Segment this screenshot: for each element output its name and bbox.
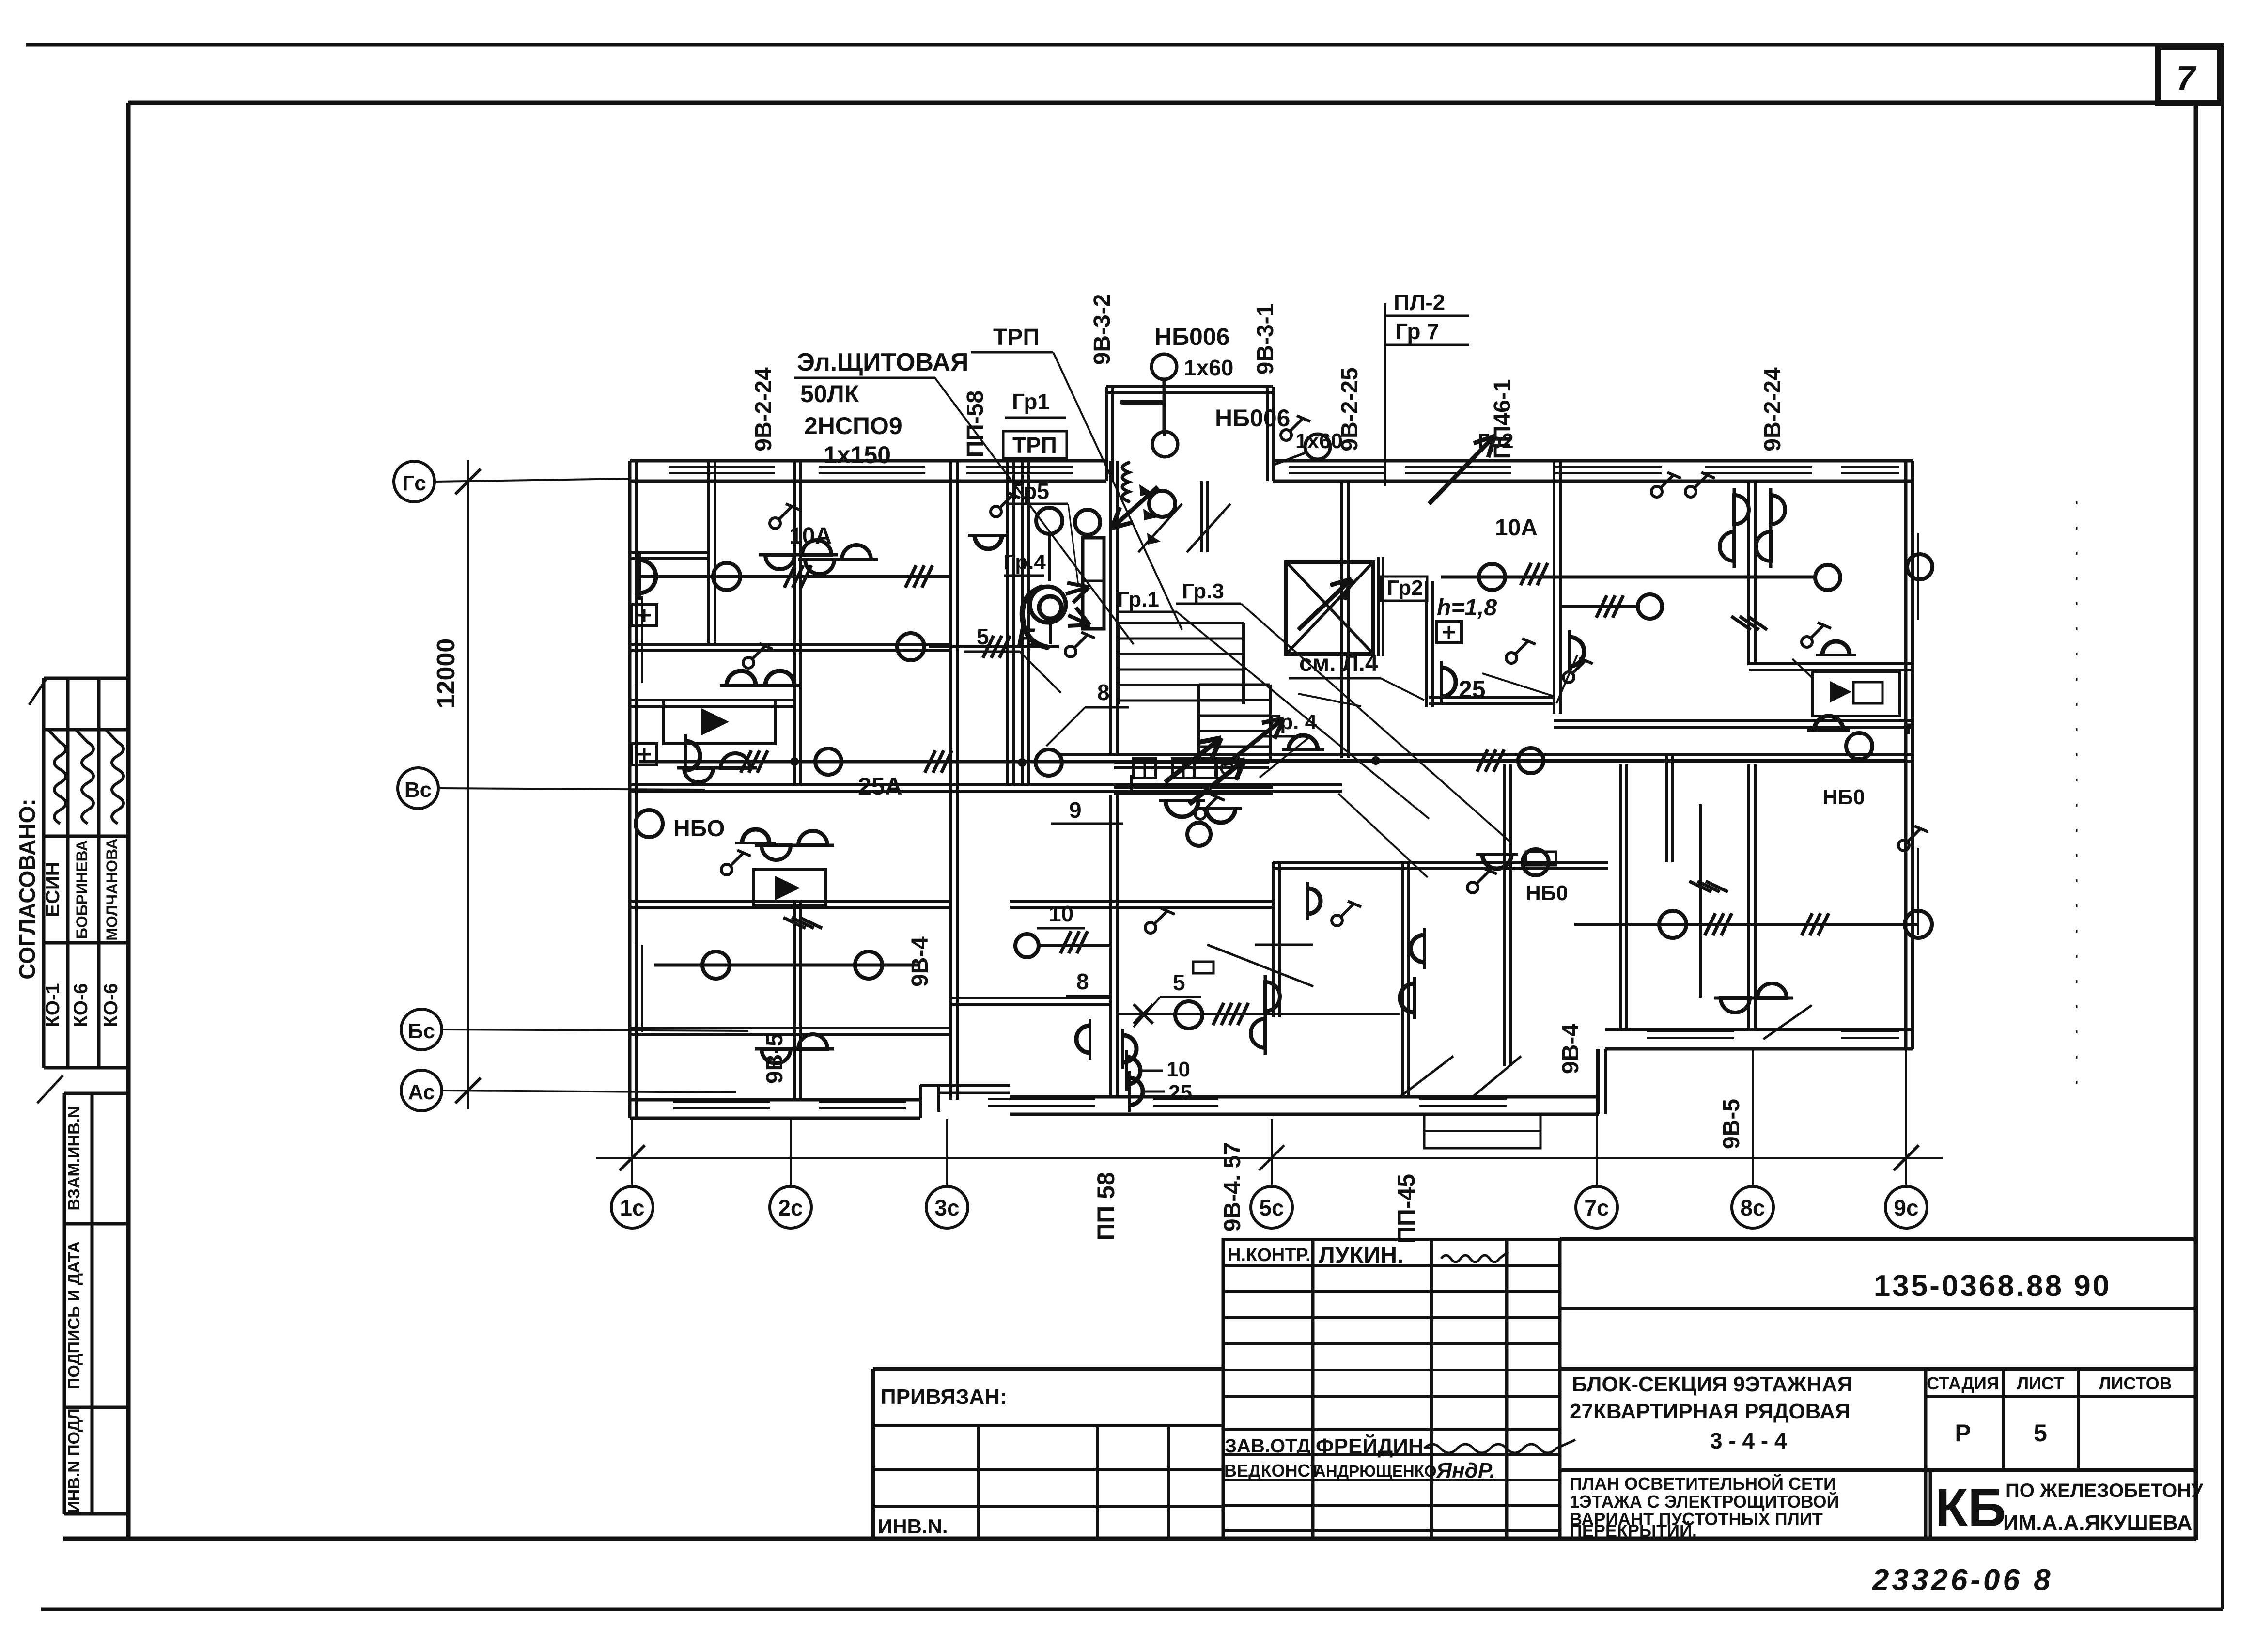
elevator shaft	[1286, 562, 1373, 654]
ceiling lamp	[1518, 748, 1543, 773]
svg-text:ТРП: ТРП	[993, 325, 1040, 350]
partition	[1665, 753, 1668, 862]
svg-text:25: 25	[1459, 676, 1486, 703]
ceiling lamp	[1846, 733, 1872, 759]
signature	[48, 730, 66, 824]
corner tick	[29, 679, 46, 705]
lower rooms wall	[630, 900, 951, 903]
horizontal dimension line	[596, 1157, 1943, 1159]
window	[1911, 533, 1913, 620]
svg-text:Гр.1: Гр.1	[1117, 588, 1159, 611]
room wall	[793, 901, 796, 1100]
wire hatch	[1477, 749, 1488, 772]
switch	[1563, 658, 1593, 683]
paired wall lamps	[798, 545, 878, 574]
kitchen wall	[1749, 662, 1913, 665]
top band bottom rule	[128, 101, 2220, 105]
feeder arrow	[1066, 587, 1089, 594]
svg-text:ЛУКИН.: ЛУКИН.	[1319, 1243, 1403, 1268]
vent shaft wall	[1006, 461, 1009, 785]
corridor wire right	[1221, 759, 1906, 762]
corridor north wall	[630, 783, 1342, 786]
leader Гр.1	[1177, 612, 1429, 819]
switch	[1467, 868, 1497, 893]
svg-text:Эл.ЩИТОВАЯ: Эл.ЩИТОВАЯ	[797, 348, 968, 376]
signature Фрейдин	[1424, 1440, 1575, 1453]
svg-text:Бс: Бс	[408, 1019, 435, 1043]
window	[1153, 1098, 1218, 1100]
svg-text:ПП-45: ПП-45	[1393, 1174, 1420, 1244]
ceiling lamp	[1015, 934, 1039, 957]
signature	[106, 730, 124, 824]
axis Ас	[401, 1070, 442, 1111]
svg-text:Вс: Вс	[404, 778, 432, 802]
wire hatch	[925, 750, 935, 773]
wall lamp НБО	[685, 734, 700, 777]
leader	[1556, 655, 1577, 703]
НБО box	[664, 700, 775, 744]
window	[819, 466, 925, 468]
sheet outer border bottom	[41, 1608, 2223, 1611]
НБО triangle	[701, 708, 729, 735]
exterior wall: left	[628, 461, 632, 1118]
НБО box	[753, 870, 826, 906]
svg-text:9В-4. 57: 9В-4. 57	[1220, 1142, 1245, 1231]
signatures (rotated squiggles)	[48, 730, 66, 824]
corridor wall	[1425, 581, 1428, 707]
wall lamp НБО	[1123, 1029, 1136, 1069]
paired wall lamps	[1720, 488, 1749, 568]
stairs	[1118, 622, 1244, 624]
feeder arrow	[1068, 615, 1090, 625]
svg-text:БЛОК-СЕКЦИЯ 9ЭТАЖНАЯ: БЛОК-СЕКЦИЯ 9ЭТАЖНАЯ	[1572, 1372, 1852, 1396]
wall lamp НБО	[1129, 1071, 1143, 1112]
ceiling lamp	[815, 748, 841, 775]
window	[1911, 848, 1913, 935]
dashed boundary line	[2076, 501, 2078, 1095]
svg-text:8: 8	[1076, 969, 1089, 994]
socket	[632, 744, 657, 765]
main switchboard outer	[1030, 587, 1066, 623]
arrow mark	[1147, 533, 1161, 545]
signature	[76, 730, 93, 824]
socket	[632, 605, 657, 626]
switch	[770, 504, 799, 529]
arrow mark	[1143, 509, 1157, 520]
leader Гр5	[1068, 504, 1078, 586]
svg-text:ФРЕЙДИН-: ФРЕЙДИН-	[1316, 1434, 1431, 1458]
svg-text:ИНВ.N ПОДЛ: ИНВ.N ПОДЛ	[65, 1408, 83, 1513]
switch	[1506, 639, 1536, 663]
bottom wall step	[919, 1085, 922, 1118]
wall lamp НБО	[1441, 661, 1456, 703]
wall lamp НБО	[1476, 854, 1518, 869]
ceiling lamp	[636, 810, 663, 837]
Бс wall	[630, 1027, 951, 1029]
inventory stamp table	[64, 1092, 128, 1095]
svg-text:ПЛ-2: ПЛ-2	[1394, 290, 1445, 315]
wall lamp НБО	[1570, 630, 1584, 673]
wall 8с upper	[1747, 482, 1750, 665]
sheet outer border right	[2221, 45, 2224, 1609]
exterior wall: bottom left	[630, 1098, 920, 1102]
svg-text:НБ006: НБ006	[1154, 323, 1229, 350]
exterior wall: right	[1904, 461, 1908, 1049]
ceiling lamp	[1659, 911, 1686, 938]
arrow mark	[1139, 484, 1153, 496]
paired wall lamps	[755, 831, 834, 860]
shelf	[1526, 852, 1556, 865]
window	[1705, 466, 1812, 468]
axis leader lines	[435, 479, 630, 482]
svg-text:Гр1: Гр1	[1012, 389, 1050, 414]
svg-text:1х60: 1х60	[1184, 355, 1233, 380]
svg-text:Гс: Гс	[402, 471, 426, 495]
window	[1289, 466, 1385, 468]
panel box	[1172, 759, 1195, 778]
svg-text:9В-5: 9В-5	[1719, 1099, 1744, 1149]
щитовая lamp	[1036, 508, 1062, 534]
svg-text:СТАДИЯ: СТАДИЯ	[1927, 1373, 1999, 1393]
panel box	[1216, 759, 1238, 778]
dim tick	[1894, 1145, 1919, 1170]
x mark	[1134, 1004, 1153, 1024]
axis 5с	[1271, 1119, 1273, 1186]
svg-text:50ЛК: 50ЛК	[800, 380, 859, 407]
ceiling lamp	[1907, 554, 1932, 579]
window	[988, 1098, 1095, 1100]
paired wall lamps	[755, 1034, 834, 1063]
exterior wall: bottom middle	[1010, 1095, 1599, 1099]
svg-text:h=1,8: h=1,8	[1437, 595, 1497, 621]
wire hatch	[1731, 616, 1751, 630]
ceiling lamp	[1036, 749, 1062, 776]
svg-text:ИМ.А.А.ЯКУШЕВА: ИМ.А.А.ЯКУШЕВА	[2003, 1511, 2192, 1535]
paired wall lamps	[1251, 975, 1280, 1055]
window	[635, 596, 637, 683]
axis 9с	[1905, 1049, 1907, 1186]
svg-text:5: 5	[1173, 970, 1185, 995]
svg-text:ЛИСТОВ: ЛИСТОВ	[2099, 1373, 2172, 1393]
svg-text:135-0368.88 90: 135-0368.88 90	[1874, 1269, 2111, 1303]
vertical dimension line	[467, 460, 469, 1109]
stair bay left wall	[1105, 387, 1108, 481]
exterior wall: bottom right	[1605, 1028, 1913, 1031]
axis 3с	[946, 1119, 948, 1186]
dim tick	[455, 1078, 481, 1103]
svg-text:9В-4: 9В-4	[907, 936, 933, 987]
stair landing edge	[1114, 762, 1269, 764]
switch	[1281, 416, 1310, 440]
svg-text:ТРП: ТРП	[1012, 433, 1057, 458]
wall lamp НБО	[1411, 928, 1424, 969]
wire	[1561, 605, 1638, 608]
title block: name box	[1560, 1367, 2196, 1371]
inner frame left	[126, 103, 131, 1540]
svg-text:5: 5	[2034, 1419, 2047, 1447]
stair bay right wall	[1266, 387, 1269, 481]
svg-text:Гр 7: Гр 7	[1395, 319, 1439, 344]
wire hatch	[905, 565, 916, 588]
svg-text:25: 25	[1168, 1081, 1192, 1105]
corridor wire	[639, 760, 1132, 764]
svg-text:9В-3-2: 9В-3-2	[1089, 294, 1115, 365]
wall lamp НБО	[1159, 800, 1205, 817]
svg-text:ВЕДКОНСТ: ВЕДКОНСТ	[1224, 1461, 1321, 1481]
ceiling lamp	[1638, 594, 1662, 619]
wall lamp НБО	[1816, 641, 1856, 655]
svg-text:10: 10	[1049, 901, 1073, 926]
svg-text:Гр.3: Гр.3	[1182, 579, 1224, 603]
axis Вс	[398, 768, 438, 809]
window	[673, 1101, 770, 1103]
wall lamp НБО	[1282, 735, 1324, 750]
switch	[1332, 901, 1361, 926]
door leaf	[1473, 1056, 1521, 1097]
door leaf	[1400, 1056, 1453, 1097]
lamp НБ006	[1305, 434, 1330, 459]
wall lamp НБО	[1400, 977, 1415, 1019]
feeder arrow	[1228, 718, 1284, 763]
svg-text:9: 9	[1069, 797, 1082, 823]
sheet outer border top	[26, 43, 2224, 47]
junction	[1371, 756, 1380, 765]
axis Бс	[401, 1009, 442, 1050]
ceiling lamp	[1815, 565, 1840, 590]
corridor south wall	[1059, 753, 1913, 756]
bath wall	[630, 699, 794, 701]
svg-text:КБ: КБ	[1935, 1478, 2006, 1538]
lower room wall	[1401, 862, 1404, 1097]
svg-text:23326-06 8: 23326-06 8	[1872, 1563, 2053, 1597]
lower partition2	[1272, 862, 1275, 1017]
svg-text:3 - 4 - 4: 3 - 4 - 4	[1710, 1428, 1787, 1453]
lower room wall	[1503, 764, 1506, 1066]
svg-text:Гр5: Гр5	[1011, 479, 1049, 504]
ceiling lamp	[897, 633, 924, 660]
switch	[743, 643, 773, 668]
ceiling lamp	[1175, 1001, 1202, 1029]
svg-text:1х150: 1х150	[824, 441, 891, 468]
svg-text:9В-3-1: 9В-3-1	[1253, 304, 1278, 375]
wire	[1699, 804, 1702, 998]
wire	[793, 908, 796, 1046]
window	[1405, 466, 1511, 468]
leader	[1482, 673, 1555, 697]
НБО box	[1813, 671, 1900, 716]
window	[635, 945, 637, 1032]
panel box	[1134, 759, 1156, 778]
wall lamp НБО	[968, 535, 1009, 549]
svg-text:9с: 9с	[1894, 1195, 1918, 1220]
svg-text:10А: 10А	[1495, 515, 1538, 541]
wall lamp НБО	[759, 671, 801, 686]
svg-text:Н.КОНТР.: Н.КОНТР.	[1228, 1245, 1311, 1265]
wire hatch	[1689, 881, 1711, 892]
socket	[1436, 622, 1462, 643]
wire hatch	[983, 636, 994, 658]
wall lamp НБО	[1127, 1050, 1140, 1091]
title block: left attachment table	[873, 1367, 1223, 1371]
feeder arc	[1022, 587, 1047, 647]
paired wall lamps	[759, 540, 838, 569]
switch	[991, 492, 1020, 517]
partition	[951, 997, 1111, 999]
wire	[1441, 576, 1816, 579]
switch	[721, 850, 751, 875]
svg-text:НБ0: НБ0	[1525, 881, 1568, 905]
щитовая right wall	[1109, 461, 1112, 755]
wall lamp НБО	[639, 553, 656, 600]
axis 1с	[631, 1119, 633, 1186]
svg-text:ЯндР.: ЯндР.	[1436, 1459, 1495, 1482]
vestibule lamp	[1149, 491, 1175, 517]
door swing	[1187, 504, 1230, 552]
feeder arrow Гр	[1112, 487, 1158, 528]
svg-text:Гр2: Гр2	[1387, 576, 1423, 600]
svg-text:ПО ЖЕЛЕЗОБЕТОНУ: ПО ЖЕЛЕЗОБЕТОНУ	[2006, 1480, 2204, 1501]
ceiling lamp	[702, 951, 730, 979]
svg-text:3с: 3с	[934, 1195, 959, 1220]
leader	[935, 378, 1134, 644]
svg-text:ВЗАМ.ИНВ.N: ВЗАМ.ИНВ.N	[65, 1106, 83, 1210]
paired wall lamps	[1714, 983, 1793, 1013]
feeder arrow Гр2	[1429, 436, 1494, 504]
wire hatch	[783, 918, 806, 928]
ceiling lamp	[1905, 911, 1932, 938]
axis 8с	[1752, 1049, 1754, 1186]
wire hatch	[784, 565, 795, 588]
wall x3210	[1553, 461, 1555, 714]
paired wall lamps	[1756, 488, 1785, 568]
svg-text:НБО: НБО	[673, 816, 725, 842]
switch	[1145, 908, 1175, 933]
bay feeder	[1122, 400, 1163, 405]
shaft feeder arrow	[1298, 579, 1352, 630]
wall lamp НБО	[735, 829, 776, 843]
hall wall	[1114, 786, 1273, 789]
wall lamp НБО	[1199, 808, 1242, 823]
vestibule wall	[1200, 481, 1203, 552]
title block: middle signature table	[1223, 1238, 1560, 1241]
НБО triangle	[775, 876, 800, 900]
lamp at bay	[1075, 510, 1100, 535]
lamp stem	[1048, 534, 1051, 581]
panel box	[1194, 759, 1216, 778]
main switchboard inner	[1039, 596, 1061, 619]
svg-text:КО-6: КО-6	[100, 983, 122, 1027]
wire hatch	[741, 750, 751, 773]
dim tick	[620, 1145, 645, 1170]
paired wall lamps	[677, 753, 757, 782]
bath wall	[630, 551, 709, 554]
stairwell left wall	[1340, 481, 1343, 758]
svg-text:Ас: Ас	[408, 1080, 435, 1104]
НБО inner	[1853, 682, 1882, 703]
svg-text:см. Л.4: см. Л.4	[1299, 651, 1378, 676]
window	[669, 466, 775, 468]
switch	[1195, 795, 1225, 819]
switch	[1065, 632, 1095, 657]
door swing	[1207, 945, 1313, 986]
signature Лукин	[1441, 1252, 1508, 1262]
feeder arrow	[1165, 738, 1221, 782]
svg-text:ПП-58: ПП-58	[963, 390, 988, 457]
ceiling lamp	[1187, 823, 1211, 846]
junction	[1018, 758, 1026, 767]
partition wall	[707, 461, 710, 644]
page number box	[2158, 47, 2220, 103]
wall lamp НБО	[720, 671, 762, 686]
svg-text:Гр2: Гр2	[1477, 429, 1514, 453]
lamp НБ006	[1151, 354, 1177, 379]
svg-text:СОГЛАСОВАНО:: СОГЛАСОВАНО:	[15, 798, 40, 979]
svg-text:27КВАРТИРНАЯ РЯДОВАЯ: 27КВАРТИРНАЯ РЯДОВАЯ	[1570, 1400, 1851, 1423]
leader diagonal	[1338, 794, 1428, 877]
svg-text:ПЕРЕКРЫТИЙ.: ПЕРЕКРЫТИЙ.	[1570, 1520, 1697, 1541]
ceiling lamp	[855, 951, 882, 979]
bottom step wall	[1597, 1049, 1600, 1114]
svg-text:7с: 7с	[1584, 1195, 1609, 1220]
window	[1555, 466, 1662, 468]
panel ЩЭ	[1083, 538, 1104, 629]
svg-text:7: 7	[2177, 59, 2197, 97]
kitchen wall left	[1429, 696, 1554, 699]
svg-text:ПЛАН ОСВЕТИТЕЛЬНОЙ СЕТИ: ПЛАН ОСВЕТИТЕЛЬНОЙ СЕТИ	[1570, 1473, 1836, 1494]
stair bay top wall	[1106, 385, 1273, 388]
wire hatch	[1521, 563, 1531, 585]
axis 2с	[790, 1119, 792, 1186]
wire hatch	[1596, 595, 1607, 618]
svg-text:8: 8	[1097, 680, 1110, 705]
axis 7с	[1596, 1049, 1598, 1186]
lower wall	[1273, 861, 1608, 864]
window	[1419, 1098, 1507, 1100]
svg-text:2с: 2с	[778, 1195, 803, 1220]
window	[1647, 1030, 1734, 1032]
lower wall	[1010, 900, 1273, 903]
window	[819, 1101, 906, 1103]
svg-text:2НСПО9: 2НСПО9	[804, 412, 902, 439]
svg-text:ЛИСТ: ЛИСТ	[2017, 1373, 2064, 1393]
leader ПЛ-2	[1384, 303, 1386, 486]
wire	[1574, 923, 1918, 926]
svg-text:10: 10	[1166, 1058, 1190, 1081]
wall lamp НБО	[1308, 882, 1321, 920]
svg-text:25А: 25А	[858, 773, 902, 800]
leader ТРП	[1053, 352, 1182, 630]
wall lamp НБО	[1807, 716, 1850, 731]
wire	[929, 645, 1059, 648]
inner frame right	[2194, 103, 2198, 1540]
wire hatch	[1802, 913, 1812, 935]
svg-text:МОЛЧАНОВА: МОЛЧАНОВА	[103, 838, 121, 940]
bearing wall 3с	[949, 461, 952, 1100]
room wall	[793, 461, 796, 785]
window	[1841, 1030, 1899, 1032]
svg-text:БОБРИНЕВА: БОБРИНЕВА	[73, 840, 91, 939]
svg-text:ПОДПИСЬ И ДАТА: ПОДПИСЬ И ДАТА	[65, 1241, 83, 1389]
svg-text:12000: 12000	[432, 639, 460, 709]
wire	[1117, 1013, 1400, 1015]
dim tick 5с	[1259, 1145, 1284, 1170]
svg-text:НБ0: НБ0	[1822, 785, 1865, 809]
switch	[1802, 623, 1831, 647]
svg-text:АНДРЮЩЕНКО: АНДРЮЩЕНКО	[1314, 1462, 1437, 1480]
wall	[1109, 795, 1112, 1097]
wire hatch	[1705, 913, 1715, 935]
bay lamp	[1152, 432, 1178, 457]
